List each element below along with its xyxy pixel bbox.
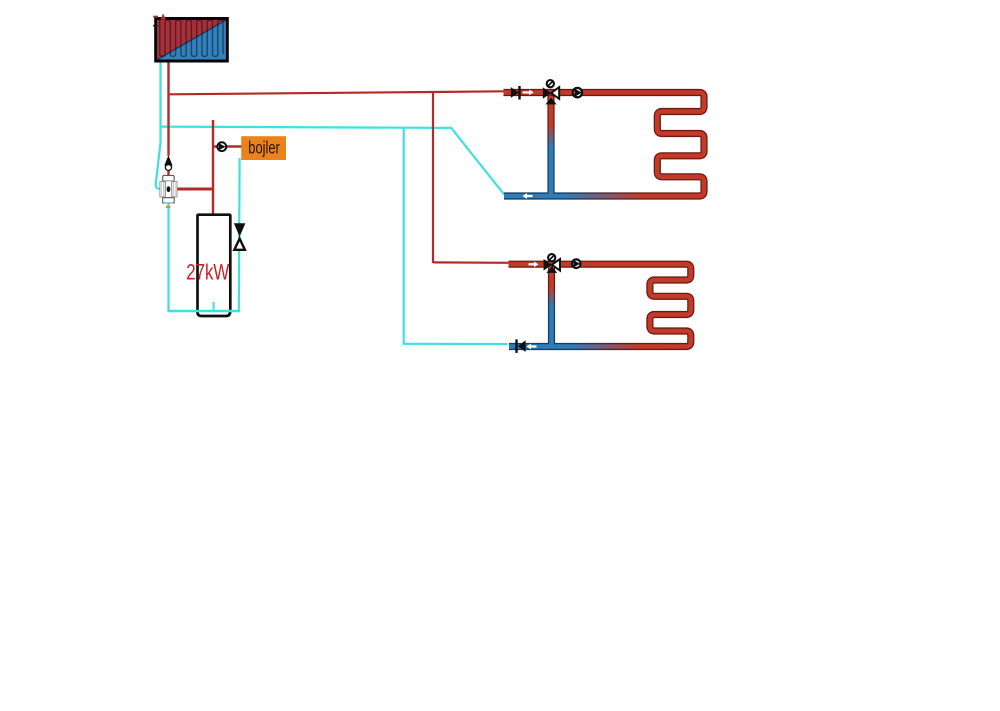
svg-text:27kW: 27kW [186,260,229,285]
svg-text:bojler: bojler [248,139,280,158]
bojler label box [241,136,286,160]
radiator vent arrow [153,13,166,19]
pipe: circuit 1 return (outline) [504,192,657,199]
3-way mixing valve M1 [543,80,559,104]
wire: cyan drop to circuit 2 return [403,127,405,343]
radiator internal serpentine [160,20,223,56]
pipe: circuit 1 mixing riser (fill) [549,96,554,197]
pipe: circuit 2 supply + floor coil (fill) [509,264,691,346]
wire: cyan return header horizontal [161,127,452,128]
check valve circuit 2 return [515,339,525,353]
circulation pump P1 [573,88,582,97]
wire: red drop to circuit 2 supply [432,92,434,263]
pipe: circuit 2 supply + floor coil (outline) [509,264,691,346]
wire: cyan diagonal to circuit 1 return [451,128,504,195]
wire: red boiler riser [212,120,214,215]
pipe: circuit 2 mixing riser (fill) [549,268,554,348]
drain mark under pump group [165,202,173,204]
flow arrow: circuit 1 return (left) [523,193,533,199]
check valve circuit 1 supply [511,86,521,100]
boiler tank 27kW [198,215,231,316]
wire: cyan boiler bottom header [167,310,240,312]
wire: red supply from radiator down [167,61,169,156]
wire: red stub between pump and group [167,169,169,176]
pipe: circuit 1 mixing riser (outline) [547,96,554,197]
radiator / collector: red-blue split body [157,20,226,60]
wire: cyan left boiler return down [167,203,169,312]
pipe: circuit 2 mixing riser (outline) [548,268,555,348]
radiator side tick [153,25,157,27]
3-way mixing valve M2 [544,254,560,273]
wire: red supply header horizontal [170,91,504,94]
pipe: circuit 1 supply + floor coil (outline) [504,93,705,197]
wire: cyan tank bottom tick [213,302,215,311]
pipe: circuit 1 supply + floor coil (fill) [504,93,705,197]
wire: cyan return from radiator down-left to pump group [156,61,161,189]
radiator border [156,19,228,62]
circulation pump P4 on solar line [164,155,172,170]
wire: red circuit 2 supply stub [433,261,509,264]
circulation pump P2 [572,259,581,268]
flow arrow: circuit 1 supply (right) [523,90,534,96]
wire: cyan from bojler tank down [238,158,241,311]
olive valve tick [166,206,171,208]
wire: red bojler supply branch [213,145,242,147]
pipe: circuit 2 return (fill) [509,344,657,349]
pump group / mixing unit [160,175,177,203]
circulation pump P3 (bojler loop) [217,142,226,151]
flow arrow: circuit 2 return (left) [527,344,537,350]
wire: cyan circuit 2 return stub [403,343,508,345]
safety valve on bojler return [234,223,246,250]
pipe: circuit 2 return (outline) [509,343,657,350]
wire: red pump group outlet [177,188,214,191]
flow arrow: circuit 2 supply (right) [529,262,539,268]
pipe: circuit 1 return (fill) [504,194,657,199]
